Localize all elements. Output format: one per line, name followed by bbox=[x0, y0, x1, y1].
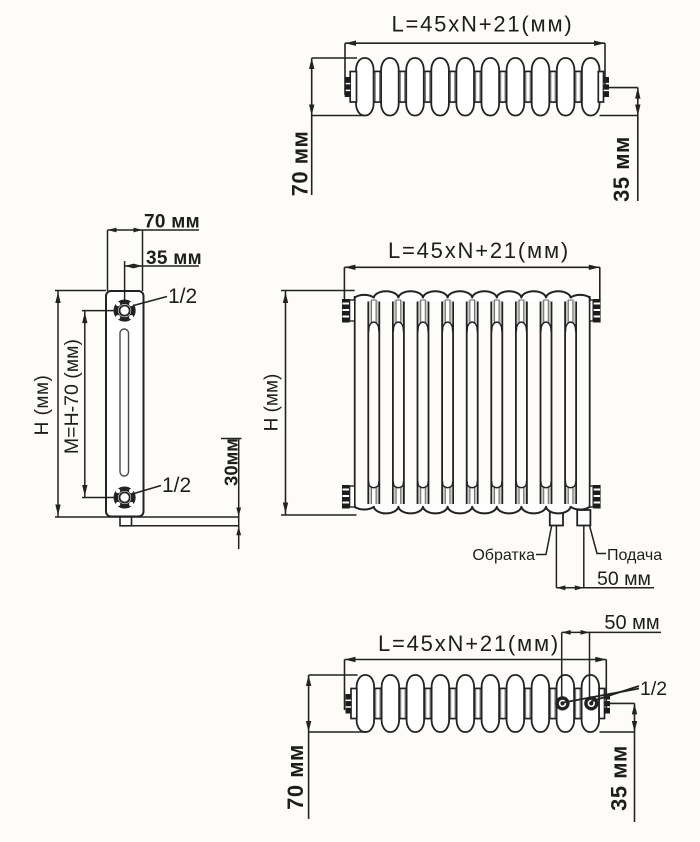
view C H top extension bbox=[55, 290, 106, 292]
svg-text:70 мм: 70 мм bbox=[283, 744, 308, 810]
svg-text:35 мм: 35 мм bbox=[609, 136, 634, 202]
view B top header wave bbox=[355, 291, 590, 301]
view B extension right bbox=[599, 267, 601, 300]
view D 70mm top extension bbox=[309, 674, 358, 676]
view D 35mm dimension line bbox=[634, 703, 636, 822]
svg-text:H (мм): H (мм) bbox=[261, 374, 282, 432]
view B H dimension line bbox=[285, 291, 287, 516]
svg-text:Подача: Подача bbox=[607, 547, 662, 564]
view B bottom left edge bbox=[354, 504, 356, 507]
view A left fitting thread bbox=[345, 77, 351, 97]
view C H bottom extension bbox=[55, 516, 239, 518]
svg-text:L=45xN+21(мм): L=45xN+21(мм) bbox=[378, 631, 560, 656]
view A 70mm dimension line bbox=[311, 58, 313, 195]
view B dimension line L bbox=[344, 266, 599, 268]
svg-text:H (мм): H (мм) bbox=[32, 375, 53, 436]
waist band outline bbox=[362, 71, 594, 73]
view C 1/2 top leader bbox=[134, 297, 168, 306]
svg-text:70 мм: 70 мм bbox=[144, 211, 200, 232]
view D 70mm bottom extension bbox=[309, 731, 366, 733]
view A 70mm top extension bbox=[312, 57, 357, 59]
svg-text:1/2: 1/2 bbox=[168, 285, 197, 308]
view D left fitting step bbox=[351, 689, 357, 719]
view B 50mm dimension line bbox=[556, 587, 654, 589]
svg-text:70 мм: 70 мм bbox=[287, 131, 312, 197]
view C stub bottom line bbox=[132, 525, 239, 527]
view C 30mm top bar bbox=[221, 438, 242, 440]
svg-text:M=H-70 (мм): M=H-70 (мм) bbox=[61, 339, 83, 454]
view B left edge bbox=[354, 298, 356, 302]
radiator top-view waist band bbox=[361, 689, 595, 719]
view C slot bbox=[120, 329, 129, 476]
svg-text:L=45xN+21(мм): L=45xN+21(мм) bbox=[388, 238, 570, 263]
waist strip bbox=[576, 71, 580, 103]
view D left fitting thread bbox=[346, 694, 352, 714]
view B bottom gap strips bbox=[369, 486, 378, 506]
view C 70mm ext right bbox=[142, 230, 144, 291]
radiator pills bbox=[356, 58, 374, 116]
view C top union nut 1/2 bbox=[116, 302, 134, 320]
view D 70mm dimension line bbox=[308, 675, 310, 819]
waist strip bbox=[501, 688, 505, 719]
waist strip bbox=[551, 71, 555, 103]
view B 50mm vertical left bbox=[555, 526, 557, 588]
view C 30mm dimension line bbox=[238, 439, 240, 550]
waist strip bbox=[375, 71, 379, 103]
view D pipe hole 1 bbox=[557, 698, 568, 709]
view C H dimension line bbox=[57, 291, 59, 518]
view D right fitting thread bbox=[605, 694, 611, 714]
svg-text:35 мм: 35 мм bbox=[607, 745, 632, 811]
waist strip bbox=[526, 688, 530, 719]
view C 70mm dimension line bbox=[108, 229, 200, 231]
waist strip bbox=[426, 688, 430, 719]
view D extension left bbox=[344, 660, 346, 711]
view B bottom header wave bbox=[355, 504, 590, 513]
waist strip bbox=[450, 71, 454, 103]
view D pipe hole 2 bbox=[586, 698, 597, 709]
view A 70mm bottom extension bbox=[312, 115, 365, 117]
svg-text:1/2: 1/2 bbox=[162, 474, 191, 497]
view C M dimension line bbox=[84, 311, 86, 498]
view B fitting top-right bbox=[590, 300, 594, 321]
waist strip bbox=[501, 71, 505, 103]
view B: front view columns bbox=[354, 296, 356, 508]
view C bottom stub pipe bbox=[120, 517, 132, 526]
view C M top extension bbox=[82, 310, 114, 312]
view B fitting top-left bbox=[350, 300, 355, 321]
radiator top-view waist band bbox=[360, 72, 596, 103]
view A right fitting thread bbox=[604, 77, 610, 97]
view A extension line right bbox=[604, 43, 606, 88]
radiator pills bbox=[357, 675, 375, 732]
waist strip bbox=[425, 71, 429, 103]
svg-text:1/2: 1/2 bbox=[640, 678, 667, 700]
view B pipes (Obratka, Podacha) bbox=[550, 510, 563, 526]
view C M bottom extension bbox=[82, 497, 114, 499]
waist strip bbox=[476, 71, 480, 103]
waist strip bbox=[451, 688, 455, 719]
view C column body bbox=[106, 291, 144, 517]
waist strip bbox=[376, 688, 380, 719]
view C 35mm dimension line bbox=[125, 265, 199, 267]
view D 50mm ext 2 bbox=[589, 632, 591, 698]
view A right bottom extension bbox=[600, 115, 639, 117]
view B H bottom extension bbox=[281, 514, 357, 516]
view B fitting bottom-right bbox=[590, 486, 594, 507]
view B H top extension bbox=[281, 290, 355, 292]
svg-text:L=45xN+21(мм): L=45xN+21(мм) bbox=[391, 12, 573, 37]
waist strip bbox=[551, 688, 555, 719]
view C pipe axis ext bbox=[124, 261, 126, 301]
view D right fitting step bbox=[599, 689, 604, 719]
view B 50mm vertical right bbox=[583, 526, 585, 588]
waist strip bbox=[400, 71, 404, 103]
waist strip bbox=[526, 71, 530, 103]
view A right pipe axis line bbox=[609, 87, 638, 89]
view D dimension line L bbox=[345, 659, 607, 661]
waist strip bbox=[476, 688, 480, 719]
view D pipe axis line right bbox=[610, 702, 635, 704]
view B bottom right edge bbox=[589, 504, 591, 507]
view A left fitting step bbox=[350, 72, 356, 103]
svg-text:30мм: 30мм bbox=[220, 438, 241, 486]
view D extension right bbox=[605, 660, 607, 709]
view D 1/2 leader 1 bbox=[564, 689, 640, 703]
view C 70mm ext left bbox=[107, 230, 109, 291]
waist band outline bbox=[363, 688, 593, 690]
view C bottom union nut 1/2 bbox=[116, 489, 134, 507]
view B top gap strips bbox=[369, 301, 378, 324]
view D 1/2 leader 2 bbox=[591, 686, 639, 702]
view A extension line left bbox=[344, 43, 346, 95]
view B extension left bbox=[343, 267, 345, 299]
view A 35mm dimension line bbox=[637, 88, 639, 201]
view C 1/2 bottom leader bbox=[134, 486, 161, 494]
svg-text:50 мм: 50 мм bbox=[597, 568, 651, 590]
view A dimension line L bbox=[345, 42, 605, 44]
view B fitting bottom-left bbox=[350, 486, 355, 507]
view B Obratka leader bbox=[536, 526, 552, 555]
waist strip bbox=[401, 688, 405, 719]
view D 50mm ext 1 bbox=[561, 632, 563, 698]
view D 50mm line bbox=[562, 631, 661, 633]
svg-text:50 мм: 50 мм bbox=[604, 612, 659, 634]
view B Podacha leader bbox=[590, 526, 606, 554]
view A right fitting step bbox=[598, 72, 603, 103]
view D right bottom extension bbox=[600, 731, 635, 733]
svg-text:Обратка: Обратка bbox=[472, 547, 535, 564]
view B right edge bbox=[589, 298, 591, 302]
waist strip bbox=[576, 688, 580, 719]
